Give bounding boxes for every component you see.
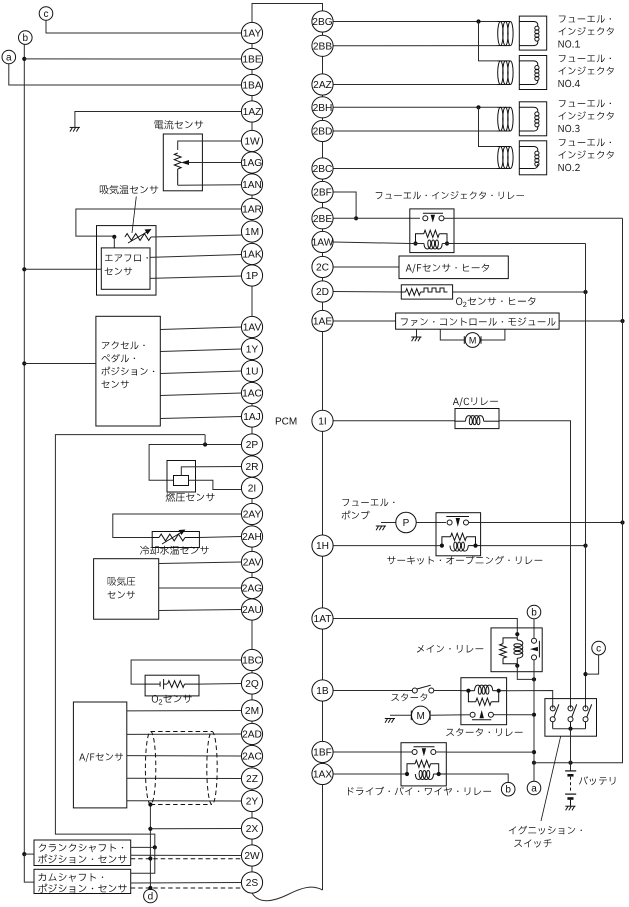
contact ignition switch poles xyxy=(550,704,592,728)
contact main relay xyxy=(530,638,540,660)
label 吸気温センサ xyxy=(100,185,158,194)
svg-text:a: a xyxy=(531,784,537,795)
svg-text:2AZ: 2AZ xyxy=(313,80,332,91)
label フューエル・インジェクタ・リレー xyxy=(376,191,524,199)
pin 1AC xyxy=(241,382,262,403)
svg-text:2BC: 2BC xyxy=(313,164,333,175)
svg-text:b: b xyxy=(23,33,29,44)
O2 sensor box xyxy=(145,675,199,696)
wire accel to 1Y xyxy=(160,349,241,352)
svg-text:1Y: 1Y xyxy=(246,345,259,356)
A/F sensor heater box xyxy=(399,256,508,279)
label エアフロ・センサ xyxy=(105,255,148,276)
label バッテリ xyxy=(579,776,615,785)
battery cells xyxy=(565,771,576,806)
wire 1AK to airflow xyxy=(150,255,241,258)
pin 1I xyxy=(312,410,333,431)
svg-text:2S: 2S xyxy=(246,878,259,889)
node a top-left xyxy=(2,50,16,64)
label サーキット・オープニング・リレー xyxy=(387,556,542,565)
wire accel to 1U xyxy=(160,371,241,374)
pin 2AD xyxy=(241,723,262,744)
label A/Fセンサ xyxy=(79,753,123,762)
pin 2BG xyxy=(312,11,333,32)
pin 2D xyxy=(312,281,333,302)
ground 1AZ xyxy=(70,127,80,131)
inductor drive-by-wire relay coil xyxy=(415,771,446,780)
current sensor box xyxy=(163,134,202,191)
svg-text:c: c xyxy=(596,644,601,655)
svg-text:1AN: 1AN xyxy=(242,180,262,191)
motor fuel pump P xyxy=(396,512,416,532)
svg-text:2I: 2I xyxy=(248,484,257,495)
svg-text:2X: 2X xyxy=(246,824,259,835)
svg-text:2Q: 2Q xyxy=(245,679,259,690)
wire 1AR to thermistor xyxy=(76,209,242,239)
label A/Fセンサ・ヒータ xyxy=(406,264,489,274)
label A/Cリレー xyxy=(453,397,498,406)
wire 2P to sensor xyxy=(149,435,241,481)
wire A/C relay to ignition switch xyxy=(499,421,571,709)
wire b-rail to cam box xyxy=(24,854,34,882)
crank position sensor box xyxy=(34,840,131,866)
svg-text:a: a xyxy=(6,53,12,64)
pin 1AN xyxy=(241,174,262,195)
wire cam common xyxy=(131,847,155,873)
label ドライブ・バイ・ワイヤ・リレー xyxy=(348,787,491,796)
switch starter xyxy=(412,685,434,693)
wire 1AT to main relay coil xyxy=(333,619,519,638)
label フューエル・インジェクタ NO.3 xyxy=(559,100,614,133)
svg-text:2R: 2R xyxy=(245,462,258,473)
wire starter relay coil row xyxy=(461,689,507,693)
inductor injector NO.4 coil xyxy=(497,61,513,85)
wire fan module ground stub xyxy=(416,329,418,336)
svg-text:2BG: 2BG xyxy=(312,17,332,28)
wire relay coil to node b xyxy=(446,774,508,782)
wire callout intake air temp xyxy=(132,197,136,234)
svg-text:1I: 1I xyxy=(318,416,327,427)
svg-text:1BA: 1BA xyxy=(242,81,261,92)
pin 2BF xyxy=(312,181,333,202)
pin 1P xyxy=(241,265,262,286)
fuel injector NO.2 body xyxy=(519,141,546,175)
resistor starter relay xyxy=(468,691,498,706)
wire b-rail to airflow box xyxy=(24,268,101,270)
wire 1AN from sensor xyxy=(178,184,242,186)
wire A/F to 2AC xyxy=(127,755,242,757)
svg-text:b: b xyxy=(531,608,537,619)
pin 1AR xyxy=(241,198,262,219)
svg-text:2M: 2M xyxy=(245,706,259,717)
svg-text:1BE: 1BE xyxy=(242,55,261,66)
shield capsule A/F harness xyxy=(145,732,217,805)
pin 2BH xyxy=(312,97,333,118)
intake pressure sensor box xyxy=(94,559,159,620)
wire 2D to heater xyxy=(333,291,401,294)
wire PCM connector bottom squiggle xyxy=(252,887,323,901)
wire accel to 1AV xyxy=(160,327,241,330)
svg-text:1BC: 1BC xyxy=(242,656,262,667)
wire 2BB to injector NO.1 xyxy=(333,45,497,47)
pin 1AV xyxy=(241,316,262,337)
svg-text:2BB: 2BB xyxy=(313,41,332,52)
pin 2W xyxy=(241,845,262,866)
wire starter motor ground stub xyxy=(390,714,411,716)
svg-text:2AD: 2AD xyxy=(242,730,262,741)
pin 2M xyxy=(241,700,262,721)
pin 1M xyxy=(241,221,262,242)
label フューエル・インジェクタ NO.1 xyxy=(559,15,614,48)
svg-text:1AT: 1AT xyxy=(314,614,332,625)
ground starter motor xyxy=(385,719,395,723)
accel pedal position sensor box xyxy=(96,316,160,426)
svg-text:2Y: 2Y xyxy=(246,797,259,808)
wire PCM left column bus xyxy=(251,33,253,893)
svg-text:2AC: 2AC xyxy=(242,752,262,763)
wire 1AG wiper arrow xyxy=(181,160,241,165)
svg-text:2AY: 2AY xyxy=(243,510,262,521)
label 燃圧センサ xyxy=(166,493,215,502)
svg-text:c: c xyxy=(44,9,49,20)
wire accel to 1AC xyxy=(160,393,241,396)
label フューエル・インジェクタ NO.4 xyxy=(559,55,614,88)
wire ignition common to battery xyxy=(570,729,572,771)
wire sensor to 2AG xyxy=(159,587,242,589)
label クランクシャフト・ポジション・センサ xyxy=(38,844,127,864)
wire 2X from drain xyxy=(150,828,241,830)
wire accel to 1AJ xyxy=(160,417,241,419)
inductor injector NO.2 coil xyxy=(497,147,513,169)
wire 1B to starter switch xyxy=(333,690,412,692)
pin 1W xyxy=(241,130,262,151)
fuel injector NO.3 body xyxy=(519,102,546,136)
wire sensor to 2AH xyxy=(199,537,241,538)
pin 2Y xyxy=(241,790,262,811)
node c top-left xyxy=(39,7,53,21)
svg-text:1AC: 1AC xyxy=(242,389,262,400)
svg-text:1AZ: 1AZ xyxy=(243,107,262,118)
svg-text:1AE: 1AE xyxy=(313,317,332,328)
pin 2C xyxy=(312,256,333,277)
relay starter relay box xyxy=(461,678,507,725)
wire 2AZ to injector NO.4 xyxy=(333,84,497,86)
pin 2AV xyxy=(241,551,262,572)
pin 2AH xyxy=(241,526,262,547)
wire 2BH to injector coils xyxy=(333,105,497,146)
svg-text:1AR: 1AR xyxy=(242,205,262,216)
wire 1H to relay coil xyxy=(333,545,442,547)
wire node c to 1AY xyxy=(46,20,241,33)
wire callout ignition switch xyxy=(541,736,561,821)
wire node c to rail xyxy=(586,655,599,674)
fuel pressure sensor inner box xyxy=(174,476,189,486)
resistor drive-by-wire relay xyxy=(405,760,441,776)
wire switch to starter relay xyxy=(434,690,461,692)
pin 1BF xyxy=(312,741,333,762)
thermistor intake air temp element xyxy=(125,229,152,243)
pin 2AC xyxy=(241,745,262,766)
svg-text:1M: 1M xyxy=(245,227,259,238)
svg-text:2AG: 2AG xyxy=(242,584,262,595)
wire relay contact to right rail xyxy=(444,217,623,219)
resistor main relay xyxy=(500,638,518,664)
pin 1AX xyxy=(312,763,333,784)
wire starter relay to ignition switch xyxy=(507,691,553,709)
fuel injector NO.4 body xyxy=(519,56,546,90)
wire relay contact to rail xyxy=(436,751,534,753)
wire 1AZ to ground xyxy=(75,112,242,128)
pin 1AY xyxy=(241,22,262,43)
wire fan motor loop xyxy=(440,329,505,340)
label カムシャフト・ポジション・センサ xyxy=(38,873,127,893)
wire motor to relay contact xyxy=(430,714,469,717)
inductor injector NO.1 coil xyxy=(497,22,513,46)
wire 1AX to relay coil xyxy=(333,773,407,775)
wire A/F to 2Z xyxy=(127,777,242,779)
wire sensor to 2AU xyxy=(159,610,242,611)
svg-text:2BD: 2BD xyxy=(313,127,333,138)
node a bottom xyxy=(527,781,541,795)
svg-text:2AH: 2AH xyxy=(242,532,262,543)
svg-text:P: P xyxy=(403,518,410,529)
wire ground rail 2P-2X xyxy=(55,435,205,848)
svg-text:1AK: 1AK xyxy=(242,250,261,261)
node b bottom xyxy=(501,782,515,796)
svg-text:2W: 2W xyxy=(244,851,260,862)
svg-text:2P: 2P xyxy=(246,440,259,451)
node b top-left xyxy=(19,31,33,45)
resistor O2 sensor element xyxy=(168,681,200,688)
wire relay coil to right rail xyxy=(481,544,588,548)
pin 2R xyxy=(241,456,262,477)
pin 2BE xyxy=(312,208,333,229)
svg-text:1AY: 1AY xyxy=(243,29,262,40)
pin 2S xyxy=(241,872,262,893)
inductor A/C relay coil xyxy=(455,416,499,425)
svg-text:M: M xyxy=(469,335,477,345)
pin 2X xyxy=(241,818,262,839)
node c right xyxy=(592,641,606,655)
label PCM xyxy=(275,417,297,428)
resistor circuit opening relay xyxy=(440,533,478,548)
svg-text:2AV: 2AV xyxy=(243,558,262,569)
relay drive-by-wire relay box xyxy=(401,743,446,786)
wire sensor to 2Q xyxy=(199,683,241,686)
wire A/F to 2AD xyxy=(127,733,242,735)
pin 1H xyxy=(312,535,333,556)
node d bottom xyxy=(144,889,158,903)
wire A/F to 2M xyxy=(127,710,242,712)
ignition switch box xyxy=(545,699,597,737)
wire thermistor tap down xyxy=(113,237,115,248)
relay circuit opening relay box xyxy=(436,513,481,556)
wire sensor to 2I xyxy=(189,480,242,489)
contact fuel injector relay xyxy=(423,213,444,222)
wire right rail relay coil common xyxy=(583,244,587,709)
ground fuel pump xyxy=(376,526,386,530)
wire right rail battery feed xyxy=(532,218,623,765)
pin 2BD xyxy=(312,120,333,141)
svg-text:2BH: 2BH xyxy=(313,103,333,114)
relay A/C relay box xyxy=(455,409,499,429)
wire node a to 1BA xyxy=(9,64,242,85)
wire starter relay contact to rail xyxy=(493,714,534,716)
inductor fuel injector relay coil xyxy=(424,240,442,249)
resistor fuel injector relay xyxy=(413,230,449,245)
pin 2P xyxy=(241,434,262,455)
ground fan control module xyxy=(411,337,421,341)
label 電流センサ xyxy=(155,120,204,129)
wire crank common xyxy=(131,845,157,849)
airflow sensor outer box xyxy=(97,226,157,296)
svg-text:2BE: 2BE xyxy=(313,214,332,225)
wire 1I to A/C relay xyxy=(333,420,455,422)
wire A/F to 2Y xyxy=(127,800,242,802)
wire crank signal to 2W xyxy=(131,854,242,856)
wire 2C to heater xyxy=(333,266,399,268)
label フューエル・インジェクタ NO.2 xyxy=(559,139,614,172)
wire 2BF to relay xyxy=(333,192,358,220)
svg-text:PCM: PCM xyxy=(275,417,297,428)
pin 2AU xyxy=(241,599,262,620)
label スタータ・リレー xyxy=(446,728,522,736)
pin 1U xyxy=(241,360,262,381)
wire 2BG to injector coils xyxy=(333,19,497,61)
svg-text:2Z: 2Z xyxy=(246,774,258,785)
label ファン・コントロール・モジュール xyxy=(401,317,556,326)
pin 1B xyxy=(312,680,333,701)
label 吸気圧センサ xyxy=(108,577,136,599)
svg-text:1B: 1B xyxy=(316,686,329,697)
pin 1BC xyxy=(241,649,262,670)
svg-text:d: d xyxy=(148,892,154,903)
inductor injector NO.3 coil xyxy=(497,107,513,131)
wire sensor to 2AV xyxy=(159,562,242,564)
pin 1AG xyxy=(241,152,262,173)
node b main relay xyxy=(527,605,541,619)
ground battery xyxy=(565,806,575,810)
wire fan module to right rail xyxy=(559,319,625,323)
pin 2AG xyxy=(241,577,262,598)
pin 2AZ xyxy=(312,74,333,95)
pin 1AT xyxy=(312,608,333,629)
svg-text:2AU: 2AU xyxy=(242,605,262,616)
cam position sensor box xyxy=(34,869,131,893)
thermistor coolant temp element xyxy=(152,530,199,545)
wire ignition switch common bar xyxy=(553,727,586,731)
wire b-rail to accel box xyxy=(24,363,96,365)
inductor circuit opening relay coil xyxy=(450,542,481,551)
wire 2BD to injector NO.3 xyxy=(333,130,497,132)
pin 1AW xyxy=(312,231,334,252)
svg-text:1AG: 1AG xyxy=(242,158,262,169)
label 冷却水温センサ xyxy=(140,546,209,555)
A/F sensor box xyxy=(73,702,126,808)
svg-text:2D: 2D xyxy=(316,287,329,298)
fuel pressure sensor outer box xyxy=(167,461,196,493)
wire node b rail xyxy=(22,44,26,856)
svg-text:b: b xyxy=(505,785,511,796)
label イグニッション・スイッチ xyxy=(509,826,582,848)
relay fuel injector relay box xyxy=(410,209,454,253)
svg-text:M: M xyxy=(417,711,425,722)
pin 1Y xyxy=(241,338,262,359)
wire 1W to sensor xyxy=(178,141,242,150)
pin 1BE xyxy=(241,48,262,69)
wire pump ground stub xyxy=(381,522,396,524)
pin 2I xyxy=(241,477,262,498)
svg-text:1AX: 1AX xyxy=(313,770,332,781)
resistor current sensor element xyxy=(174,153,181,185)
fan control module box xyxy=(396,313,559,329)
svg-text:1U: 1U xyxy=(245,367,258,378)
wire cam signal to 2S xyxy=(131,882,242,885)
wire shield drain to node d xyxy=(148,802,152,890)
wire O2 heater to rail xyxy=(453,290,588,294)
pin 1AZ xyxy=(241,101,262,122)
label O2センサ xyxy=(152,695,192,705)
wire 1BE branch xyxy=(24,58,241,60)
contact circuit opening relay xyxy=(446,517,469,527)
svg-text:1P: 1P xyxy=(246,271,259,282)
O2 sensor heater box xyxy=(401,285,452,299)
wire 1P to airflow xyxy=(150,276,241,278)
wire 1AW through relay coil xyxy=(333,242,454,244)
wire 2R to sensor xyxy=(181,467,241,476)
wire main relay coil to junction xyxy=(517,666,536,682)
wire 2BE to relay xyxy=(333,217,420,219)
wire node b to main relay contact xyxy=(533,619,535,639)
svg-text:1AJ: 1AJ xyxy=(243,412,261,423)
contact starter relay xyxy=(470,710,493,720)
O2 sensor cell element xyxy=(145,679,167,689)
label スタータ xyxy=(391,693,427,701)
wire pump to relay contact xyxy=(416,522,446,524)
wire 1AE to fan module xyxy=(333,320,396,322)
pin 2BB xyxy=(312,35,333,56)
wire PCM right column bus xyxy=(322,22,324,891)
label メイン・リレー xyxy=(417,645,483,653)
pin 2AY xyxy=(241,503,262,524)
svg-text:1BF: 1BF xyxy=(313,748,332,759)
wire cam shield to 2S xyxy=(131,887,245,889)
pin 1AK xyxy=(241,243,262,264)
wire PCM connector outline top bridge xyxy=(252,4,323,34)
wire 2BC to injector NO.2 xyxy=(333,168,497,170)
wire 1BF to relay xyxy=(333,751,412,753)
pin 1AE xyxy=(312,310,333,331)
wire main relay contact down rail xyxy=(532,660,536,781)
wire thermistor to 1M xyxy=(151,235,244,237)
wire crank shield to 2W xyxy=(131,858,245,860)
pin 2Q xyxy=(241,673,262,694)
pin 1AJ xyxy=(241,406,262,427)
motor starter M xyxy=(411,706,430,724)
wire 2AY elbow xyxy=(113,514,242,538)
inductor starter relay coil xyxy=(475,685,493,694)
wire relay coil to right rail xyxy=(454,243,586,245)
svg-text:2C: 2C xyxy=(316,263,329,274)
svg-text:2BF: 2BF xyxy=(313,188,332,199)
resistor O2 heater element xyxy=(401,288,447,295)
svg-text:1AW: 1AW xyxy=(312,238,334,249)
svg-text:1W: 1W xyxy=(244,137,260,148)
coolant temp sensor box xyxy=(152,532,199,548)
motor fan M xyxy=(464,333,481,348)
relay main relay box xyxy=(491,628,542,672)
wire b-rail to crank box xyxy=(24,853,34,855)
